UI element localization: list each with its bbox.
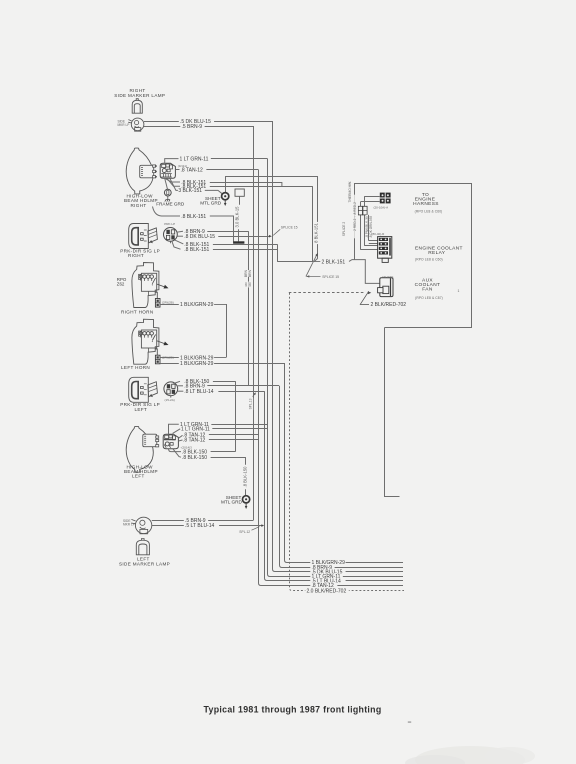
engine harness box outline <box>355 184 472 328</box>
wire sheet grd to relay vertical <box>314 176 320 262</box>
thermo connector pin label <box>374 206 389 210</box>
wire .8 DK BLU-15 right park <box>177 234 272 240</box>
wire .8 TAN-12 right hdlp <box>175 168 258 174</box>
label 2.0 BLK/RED-702 bottom <box>305 588 349 594</box>
bus ground bar <box>233 241 244 243</box>
rotated labels BRN BRN on verticals <box>244 269 253 287</box>
svg-text:1 BLK/GRN-29: 1 BLK/GRN-29 <box>180 361 214 367</box>
svg-text:1 BLK/GRN-29: 1 BLK/GRN-29 <box>180 302 214 308</box>
stray mark <box>408 721 411 723</box>
svg-text:8 BLK-151: 8 BLK-151 <box>314 222 319 242</box>
relay connector pin label <box>372 232 386 236</box>
rotated label splice 2 <box>342 221 347 237</box>
svg-text:460: 460 <box>248 282 252 287</box>
thermo inline connectors <box>358 206 367 215</box>
wire .8 RED-2 thermo <box>360 202 379 250</box>
right headlamp connector <box>160 163 175 178</box>
svg-text:.8 DK BLU-15: .8 DK BLU-15 <box>184 234 215 240</box>
wire 1 BLK/GRN-29 right horn <box>160 302 227 358</box>
wire 1 BLK/GRN-29 left horn a <box>160 355 226 361</box>
svg-text:1: 1 <box>458 289 460 293</box>
wire to junction 2 BLK-151 <box>277 186 313 261</box>
svg-text:(20-10A)-A: (20-10A)-A <box>374 206 389 210</box>
wire 1 LT GRN-11 right hdlp <box>165 156 268 163</box>
label .8 TAN-12 bottom <box>310 582 337 588</box>
right park lamp connector <box>164 228 178 244</box>
left side marker lamp symbol <box>136 539 149 555</box>
pin label 1N11 <box>178 164 187 168</box>
splice 12 label <box>239 527 259 534</box>
wire .8 BLK-150 left park <box>173 379 235 385</box>
left side marker tiny label <box>123 519 135 527</box>
label 1 BLK/GRN-29 bottom <box>310 559 345 565</box>
left side marker socket <box>131 517 152 534</box>
svg-text:THERMO HW.: THERMO HW. <box>348 181 352 203</box>
svg-text:.8 BLK-150: .8 BLK-150 <box>182 455 207 461</box>
wire .5 LT BLU-14 left marker <box>152 523 264 529</box>
rotated label .8 dk grn-935 <box>369 215 374 239</box>
junction label 2 BLK-151 <box>314 260 379 284</box>
wire .5 BRN-9 right marker vertical <box>253 126 255 521</box>
wire .8 BLK-151 right park a <box>175 240 278 262</box>
right headlamp bulb comb <box>140 165 157 178</box>
wire .8 LT BLU-14 left park <box>178 389 265 395</box>
right horn title <box>121 309 154 314</box>
svg-text:Typical 1981 through 1987 fron: Typical 1981 through 1987 front lighting <box>204 705 382 715</box>
wire .8 BLK-151 loop to bus <box>153 207 234 242</box>
svg-text:(15-2A): (15-2A) <box>165 398 175 402</box>
frame ground symbol <box>164 178 171 201</box>
wire .8 BRN-9 park branch vertical <box>248 231 250 385</box>
engine harness tail wire <box>385 328 400 497</box>
left park lamp pin label <box>165 398 175 402</box>
right headlamp title <box>124 194 158 208</box>
left headlamp bulb comb <box>143 434 159 447</box>
engine coolant relay connector <box>378 237 392 263</box>
svg-text:HARNESS: HARNESS <box>413 201 439 207</box>
frame ground label <box>156 201 185 206</box>
svg-text:2.0 BLK/RED-702: 2.0 BLK/RED-702 <box>307 588 347 594</box>
svg-text:RIGHT: RIGHT <box>128 253 144 258</box>
svg-text:RIGHT HORN: RIGHT HORN <box>121 309 154 314</box>
sheet metal ground left symbol <box>243 496 250 509</box>
svg-text:MTL GRD: MTL GRD <box>221 499 243 504</box>
right park lamp flag <box>148 228 158 243</box>
to engine harness label <box>413 192 442 214</box>
right headlamp lens <box>126 148 153 194</box>
svg-text:SPLICE 15: SPLICE 15 <box>281 226 298 230</box>
wire 1 BLK/GRN-29 vertical+bend <box>285 363 404 563</box>
wires into relay connector <box>360 215 377 250</box>
wire .8 BLK-151 right park b <box>172 242 277 253</box>
wire .5 DK BLU-15 top <box>144 119 272 125</box>
svg-text:.8 TAN-12: .8 TAN-12 <box>181 168 204 174</box>
wire .8 BLK-150 left hdlp a <box>169 449 236 456</box>
svg-text:(RPO LE8 & C87): (RPO LE8 & C87) <box>415 296 443 300</box>
wire .5 LT BLU-14 vertical+bend <box>265 391 404 580</box>
svg-text:LEFT: LEFT <box>135 407 148 412</box>
splice 13 rotated <box>248 392 256 410</box>
sheet metal ground left label <box>221 495 243 505</box>
svg-text:LEFT: LEFT <box>132 474 145 479</box>
wire .8 BLK-151 right hdlp b <box>167 178 313 190</box>
wire .5 BRN-9 top <box>144 124 253 130</box>
right side marker tiny label <box>118 120 130 128</box>
left headlamp title <box>124 464 158 478</box>
right park lamp body <box>129 224 149 249</box>
right side marker socket <box>128 118 144 131</box>
sheet metal ground right label <box>200 196 222 206</box>
svg-text:(2R&2B): (2R&2B) <box>162 300 174 304</box>
left park lamp title <box>120 402 160 412</box>
rotated label thermo hw <box>348 181 353 203</box>
wire 3 BLK-151 <box>170 179 223 195</box>
rotated label .8 pnk/blk-39 <box>365 215 370 239</box>
svg-text:2 BLK-151: 2 BLK-151 <box>322 260 346 266</box>
svg-text:BRN: BRN <box>248 269 252 277</box>
label 1 LT GRN-11 bottom <box>310 573 343 579</box>
wire 1 LT GRN-11 vertical+bend <box>268 159 404 577</box>
left horn title <box>121 365 150 370</box>
svg-text:SPLICE 2: SPLICE 2 <box>342 222 346 237</box>
wire .8 TAN-12 left hdlp a <box>178 433 258 439</box>
svg-text:RIGHT: RIGHT <box>131 203 147 208</box>
left park lamp body <box>129 377 149 402</box>
bus 3.0 BLK-151 wire <box>234 196 240 241</box>
wire .8 BRN-9 left park <box>178 384 279 390</box>
svg-text:SPLICE 15: SPLICE 15 <box>322 275 339 279</box>
label .8 BRN-9 bottom <box>310 564 334 570</box>
svg-text:(RPO LE8 & C60): (RPO LE8 & C60) <box>415 210 443 214</box>
wire .8 BLK-151 right hdlp a <box>165 178 282 186</box>
svg-text:2 RED-2 ↑ .8 RED-2: 2 RED-2 ↑ .8 RED-2 <box>353 202 357 231</box>
wire .8 TAN-12 vertical+bend <box>259 170 404 586</box>
wire 2 RED-2 thermo <box>365 196 380 246</box>
svg-text:(80-40)-R: (80-40)-R <box>372 232 386 236</box>
right horn body <box>132 263 169 308</box>
wire 1 BLK/GRN-29 left horn b <box>160 361 284 367</box>
aux fan connector pin label <box>382 275 393 279</box>
rpo z62 label <box>117 277 127 287</box>
wire 1 LT GRN-11 left hdlp b <box>173 426 268 433</box>
label .5 LT BLU-14 bottom <box>310 578 345 584</box>
wire .8 BRN-9 right park <box>176 229 248 235</box>
left headlamp connector <box>163 434 178 449</box>
svg-text:MKR LP: MKR LP <box>123 523 135 527</box>
caption <box>204 705 382 715</box>
svg-text:.8 TAN-12: .8 TAN-12 <box>183 437 206 443</box>
svg-text:3.0 BLK-15: 3.0 BLK-15 <box>234 206 239 228</box>
svg-text:SPL.13: SPL.13 <box>248 398 252 409</box>
svg-text:PRK LP: PRK LP <box>164 222 175 226</box>
left side marker title <box>119 557 170 567</box>
svg-text:.8 BLK-150: .8 BLK-150 <box>242 466 247 488</box>
wire .8 TAN-12 left hdlp b <box>178 437 258 443</box>
svg-text:.8 LT BLU-14: .8 LT BLU-14 <box>184 389 213 395</box>
svg-text:.8 BLK-151: .8 BLK-151 <box>184 247 209 253</box>
aux coolant fan connector <box>378 278 393 297</box>
svg-text:2 BLK/RED-702: 2 BLK/RED-702 <box>371 302 407 308</box>
engine coolant relay label <box>415 245 463 261</box>
wire .8 BRN-9 vertical+bend <box>280 386 404 568</box>
wire .8 BLK-150 left hdlp b <box>173 449 246 461</box>
pin label 2014 <box>181 445 193 449</box>
svg-text:LEFT HORN: LEFT HORN <box>121 365 150 370</box>
svg-text:RELAY: RELAY <box>428 250 446 256</box>
wire .8 BLK-150 branch vertical <box>235 381 237 451</box>
left headlamp lens <box>126 426 153 472</box>
left horn connector label <box>162 356 174 360</box>
svg-text:1 LT GRN-11: 1 LT GRN-11 <box>180 156 209 162</box>
svg-text:Z62: Z62 <box>117 281 125 286</box>
splice 15 upper label <box>273 226 297 236</box>
wire .5 DK BLU-15 vertical+bend <box>273 121 404 572</box>
right side marker lamp symbol <box>132 99 142 114</box>
label .5 DK BLU-15 bottom <box>310 569 345 575</box>
wire 2.0 BLK/RED-702 dashed horizontal <box>289 291 372 294</box>
svg-text:1 LT GRN-11: 1 LT GRN-11 <box>181 426 210 432</box>
left park lamp flag <box>148 382 158 397</box>
wire 1 LT GRN-11 left hdlp a <box>169 422 268 434</box>
svg-text:.5 BRN-9: .5 BRN-9 <box>182 124 203 130</box>
right horn connector label <box>162 300 174 304</box>
wire 2.0 BLK/RED-702 dashed vertical+bend <box>290 293 405 591</box>
bus 3.0 BLK-151 top connector <box>235 189 244 196</box>
svg-text:3 BLK-151: 3 BLK-151 <box>178 188 202 194</box>
rotated label 2 red-2 .8 red-2 <box>353 195 358 239</box>
svg-text:MTL GRD: MTL GRD <box>200 200 222 205</box>
svg-text:.5 LT BLU-14: .5 LT BLU-14 <box>185 523 214 529</box>
svg-text:.8 BLK-151: .8 BLK-151 <box>181 214 206 220</box>
aux coolant fan label <box>415 278 460 300</box>
left horn body <box>132 319 169 364</box>
svg-text:FAN: FAN <box>422 287 433 293</box>
svg-text:MKR LP: MKR LP <box>118 123 130 127</box>
sheet metal ground right symbol <box>222 176 318 206</box>
right park lamp title <box>120 248 160 258</box>
wire .5 BRN-9 left marker <box>152 518 253 524</box>
label 2 BLK/RED-702 <box>360 291 406 308</box>
left park lamp connector <box>164 382 178 398</box>
svg-text:SPL.12: SPL.12 <box>239 530 250 534</box>
right park lamp pin label <box>164 222 175 226</box>
svg-text:SIDE MARKER LAMP: SIDE MARKER LAMP <box>119 562 170 567</box>
svg-text:(RPO LE8 & C60): (RPO LE8 & C60) <box>415 257 443 261</box>
splice 15 lower <box>306 253 339 279</box>
thermo switch connector <box>380 193 391 204</box>
right side marker lamp title <box>114 88 165 98</box>
wire .8 BLK-150 ground vertical <box>242 457 248 495</box>
svg-text:SIDE MARKER LAMP: SIDE MARKER LAMP <box>114 93 165 98</box>
svg-text:FRAME GRD: FRAME GRD <box>156 201 185 206</box>
